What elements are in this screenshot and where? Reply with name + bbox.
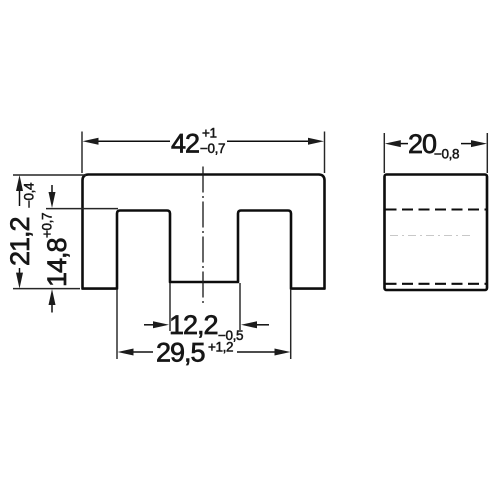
svg-text:−0,8: −0,8: [434, 147, 459, 162]
dimension 42: left extension line: [81, 132, 83, 174]
dimension 12,2: right extension line: [239, 283, 241, 330]
dimension 21,2: bottom extension line: [13, 288, 80, 290]
svg-text:+0,7: +0,7: [40, 213, 55, 238]
svg-text:−0,4: −0,4: [22, 182, 37, 208]
svg-text:29,5: 29,5: [156, 338, 205, 368]
svg-text:42: 42: [171, 129, 199, 159]
dimension 29,5: dimension line right segment with arrow: [237, 349, 291, 356]
svg-text:12,2: 12,2: [169, 310, 218, 340]
dimension 12,2: left arrow pointing right: [144, 321, 169, 328]
side view: faint horizontal centerline: [390, 235, 470, 237]
dimension 42: right extension line: [324, 132, 326, 174]
dimension 14,8: extension line: [46, 208, 118, 210]
dimension 29,5: right extension line: [290, 289, 292, 359]
dimension 29,5: dimension line left segment with arrow: [118, 349, 154, 356]
side view: body outline: [385, 175, 488, 291]
dimension 42: dimension line left segment with arrow: [83, 138, 171, 145]
svg-text:+1,2: +1,2: [208, 340, 233, 355]
dimension 42: dimension line right segment with arrow: [227, 138, 324, 145]
front view: vertical centerline: [202, 167, 204, 304]
dimension 29,5: left extension line: [116, 289, 118, 359]
side view: hidden edge dashed line (web bottom level): [386, 283, 487, 285]
svg-text:20: 20: [408, 129, 436, 159]
dimension 12,2: left extension line: [169, 283, 171, 331]
svg-text:21,2: 21,2: [5, 217, 35, 266]
dimension 14,8: lower arrow pointing up: [49, 289, 56, 313]
side view: hidden edge dashed line (slot bottom level): [386, 208, 487, 210]
dimension 21,2: upper arrow pointing up: [16, 175, 23, 206]
svg-text:+1: +1: [202, 126, 217, 141]
front view: U-core outline: [83, 175, 325, 289]
dimension 12,2: right arrow pointing left: [241, 321, 269, 328]
dimension 20: dimension line right segment with arrow: [461, 140, 487, 147]
dimension 21,2: top extension line: [13, 174, 86, 176]
dimension 14,8: upper arrow pointing down: [49, 185, 56, 208]
svg-text:−0,7: −0,7: [200, 141, 225, 156]
dimension 21,2: lower arrow pointing down: [16, 268, 23, 289]
dimension 20: left extension line: [383, 133, 385, 173]
svg-text:14,8: 14,8: [42, 238, 72, 287]
dimension 20: dimension line left segment with arrow: [385, 140, 408, 147]
dimension 20: right extension line: [486, 133, 488, 173]
